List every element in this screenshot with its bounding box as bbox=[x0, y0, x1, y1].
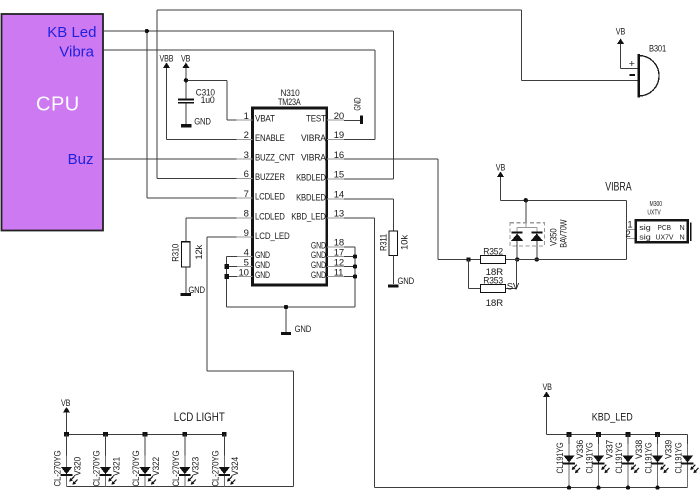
node anode junction V336 bbox=[567, 432, 572, 437]
svg-text:TM23A: TM23A bbox=[278, 97, 301, 107]
ground below R310 bbox=[181, 285, 206, 295]
capacitor C310 1u0 bbox=[178, 88, 215, 125]
power VB arrow (C310) bbox=[181, 54, 190, 91]
diode V350 BAV70W dual bbox=[510, 219, 568, 259]
resistor R310 12k bbox=[171, 242, 204, 267]
node GND junction pin12 bbox=[353, 264, 357, 268]
svg-text:11: 11 bbox=[334, 267, 343, 278]
wire pin16 VIBRA to R352 rail bbox=[344, 159, 481, 259]
pin 2 M300 bbox=[625, 229, 634, 240]
wire GND pins 18,17,12,11 bus bbox=[344, 247, 355, 307]
node anode junction V321 bbox=[103, 432, 108, 437]
pin 2 ENABLE (left) bbox=[236, 130, 284, 144]
svg-text:Vibra: Vibra bbox=[59, 43, 94, 60]
node junction VB / V350 cathode bbox=[524, 198, 528, 202]
pin 1 VBAT (left) bbox=[236, 111, 275, 125]
node GND junction pin10 bbox=[224, 274, 229, 279]
svg-text:SV: SV bbox=[507, 282, 520, 293]
svg-text:VB: VB bbox=[61, 398, 70, 408]
pin 15 KBDLED (right) bbox=[296, 170, 344, 184]
svg-text:GND: GND bbox=[398, 276, 415, 286]
wire VB to M300 pin1 net bbox=[501, 177, 627, 260]
node GND junction pin5 bbox=[224, 264, 229, 269]
svg-text:CL191YG: CL191YG bbox=[585, 442, 595, 473]
power VB arrow (vibra) bbox=[496, 163, 505, 200]
svg-text:19: 19 bbox=[334, 130, 344, 141]
svg-text:1: 1 bbox=[244, 111, 249, 122]
svg-text:BUZZER: BUZZER bbox=[255, 172, 285, 183]
svg-text:VB: VB bbox=[616, 26, 625, 36]
buzzer B301 bbox=[629, 44, 666, 98]
svg-text:V324: V324 bbox=[230, 457, 240, 476]
svg-text:GND: GND bbox=[352, 97, 362, 110]
resistor R353 18R bbox=[481, 275, 506, 307]
svg-text:CL-270YG: CL-270YG bbox=[171, 450, 181, 486]
pin 11 GND (right) bbox=[311, 267, 344, 281]
pin 3 BUZZ_CNT (left) bbox=[236, 150, 295, 164]
svg-text:sig: sig bbox=[639, 233, 651, 242]
svg-text:LCDLED: LCDLED bbox=[255, 211, 285, 222]
resistor R311 10k bbox=[378, 231, 409, 256]
pin 13 KBD_LED (right) bbox=[291, 209, 344, 223]
wire R310 to ground bbox=[185, 267, 187, 293]
svg-text:N: N bbox=[680, 233, 685, 242]
pin 18 GND (right) bbox=[311, 238, 344, 252]
node junction VB / C310 bbox=[184, 78, 188, 82]
svg-text:CL-270YG: CL-270YG bbox=[210, 450, 220, 486]
wire pin13 KBD_LED to keyboard LED rail bbox=[344, 218, 688, 488]
svg-text:VBAT: VBAT bbox=[255, 114, 275, 125]
svg-text:CL191YG: CL191YG bbox=[674, 442, 684, 473]
svg-text:KBD_LED: KBD_LED bbox=[291, 211, 326, 222]
wire VB to KBD anode rail bbox=[547, 397, 688, 488]
svg-text:2: 2 bbox=[625, 229, 630, 240]
pin 9 LCD_LED (left) bbox=[236, 228, 290, 242]
svg-text:BUZZ_CNT: BUZZ_CNT bbox=[255, 153, 295, 164]
svg-text:V321: V321 bbox=[111, 457, 121, 476]
svg-text:V339: V339 bbox=[663, 440, 673, 459]
svg-text:18R: 18R bbox=[486, 298, 504, 308]
svg-text:20: 20 bbox=[334, 111, 344, 122]
wire VB to buzzer + bbox=[621, 44, 638, 69]
svg-text:V320: V320 bbox=[72, 457, 82, 476]
svg-text:V337: V337 bbox=[604, 440, 614, 459]
wire R352 output rail to M300 bbox=[506, 259, 627, 261]
resistor R352 18R bbox=[481, 246, 506, 277]
pin 8 LCDLED (left) bbox=[236, 209, 285, 223]
svg-text:+: + bbox=[629, 58, 635, 70]
pin 4 GND (left) bbox=[236, 247, 270, 261]
svg-text:CL-270YG: CL-270YG bbox=[53, 450, 63, 486]
svg-text:V350: V350 bbox=[549, 228, 559, 246]
pin 5 GND (left) bbox=[236, 257, 270, 271]
svg-text:sig: sig bbox=[639, 223, 651, 232]
node anode junction V320 bbox=[64, 432, 69, 437]
LED V340 CL191YG bbox=[674, 435, 699, 488]
svg-text:GND: GND bbox=[295, 324, 312, 334]
wire pin8 LCDLED to R310 bbox=[186, 218, 237, 242]
pin 17 GND (right) bbox=[311, 247, 344, 261]
svg-text:15: 15 bbox=[334, 170, 344, 181]
svg-text:VBB: VBB bbox=[160, 54, 174, 64]
ground below IC bbox=[281, 324, 312, 334]
svg-text:16: 16 bbox=[334, 150, 344, 161]
svg-text:CL-270YG: CL-270YG bbox=[131, 450, 141, 486]
svg-text:UX7V: UX7V bbox=[656, 233, 674, 242]
node anode junction V339 bbox=[655, 432, 660, 437]
pin 19 VIBRA (right) bbox=[301, 130, 344, 144]
svg-text:10: 10 bbox=[239, 267, 249, 278]
LED V338 CL191YG bbox=[614, 435, 644, 488]
svg-text:ENABLE: ENABLE bbox=[255, 133, 285, 144]
svg-text:R311: R311 bbox=[378, 234, 388, 251]
svg-text:GND: GND bbox=[194, 117, 211, 127]
svg-text:9: 9 bbox=[244, 228, 249, 239]
svg-text:GND: GND bbox=[255, 270, 270, 281]
svg-text:CPU: CPU bbox=[36, 94, 80, 116]
svg-text:1u0: 1u0 bbox=[201, 95, 215, 105]
svg-text:B301: B301 bbox=[649, 44, 666, 54]
LED V320 CL-270YG bbox=[53, 434, 83, 486]
pin 16 VIBRA (right) bbox=[301, 150, 344, 164]
wire pin14 KBDLED to R311 bbox=[344, 199, 393, 231]
pin 10 GND (left) bbox=[236, 267, 270, 281]
node anode junction V322 bbox=[143, 432, 148, 437]
op IC N310 TM23A body bbox=[252, 88, 326, 285]
svg-text:VIBRA: VIBRA bbox=[605, 179, 632, 193]
svg-text:13: 13 bbox=[334, 209, 344, 220]
svg-text:2: 2 bbox=[244, 130, 249, 141]
pin 20 TEST (right) bbox=[306, 111, 344, 125]
power VB arrow (LCD light) bbox=[61, 398, 70, 435]
LED V336 CL191YG bbox=[555, 435, 585, 488]
pin 12 GND (right) bbox=[311, 257, 344, 271]
wire buzzer net: CPU top wire to B301 bbox=[157, 10, 638, 178]
LED V339 CL191YG bbox=[644, 435, 674, 488]
svg-text:VIBRA: VIBRA bbox=[301, 133, 327, 144]
node GND junction below IC bbox=[284, 305, 288, 309]
connector M300 UXTV bbox=[636, 199, 691, 242]
LED V324 CL-270YG bbox=[210, 434, 240, 486]
wire V350 common cathode link bbox=[517, 200, 537, 231]
wire pin9 LCD_LED to LCD LED rail bbox=[67, 237, 294, 486]
svg-text:N: N bbox=[680, 223, 685, 232]
node junction KB Led / LCDLED bbox=[145, 29, 149, 33]
svg-text:TEST: TEST bbox=[306, 114, 326, 125]
svg-text:VB: VB bbox=[543, 382, 552, 392]
svg-text:KBD_LED: KBD_LED bbox=[592, 411, 633, 423]
power VB arrow (buzzer) bbox=[616, 26, 625, 66]
svg-text:GND: GND bbox=[188, 285, 205, 295]
svg-text:CL191YG: CL191YG bbox=[644, 442, 654, 473]
svg-text:3: 3 bbox=[244, 150, 249, 161]
LED V323 CL-270YG bbox=[171, 434, 201, 486]
svg-text:12k: 12k bbox=[194, 244, 204, 259]
LED V322 CL-270YG bbox=[131, 434, 161, 486]
wire VB to LCD anode rail bbox=[67, 412, 225, 434]
svg-text:V338: V338 bbox=[634, 440, 644, 459]
svg-text:V323: V323 bbox=[191, 457, 201, 476]
svg-text:7: 7 bbox=[244, 189, 249, 200]
power VB arrow (KBD led) bbox=[543, 382, 552, 420]
node cathode junction V339 bbox=[655, 485, 659, 489]
wire GND stub below IC bbox=[285, 307, 287, 332]
svg-text:V322: V322 bbox=[151, 457, 161, 476]
CPU block U300 bbox=[2, 14, 104, 231]
wire Vibra net: CPU to pin19 bbox=[104, 50, 376, 139]
wire R353 branch bbox=[469, 260, 517, 289]
svg-text:PCB: PCB bbox=[658, 223, 672, 232]
svg-text:LCD_LED: LCD_LED bbox=[255, 231, 290, 242]
svg-text:CL191YG: CL191YG bbox=[555, 442, 565, 473]
svg-text:CL191YG: CL191YG bbox=[614, 442, 624, 473]
svg-text:KBDLED: KBDLED bbox=[296, 172, 326, 183]
svg-text:KBDLED: KBDLED bbox=[296, 192, 326, 203]
node junction V350 anode left bbox=[515, 257, 519, 261]
svg-text:KB Led: KB Led bbox=[47, 24, 96, 41]
svg-text:LCD LIGHT: LCD LIGHT bbox=[174, 410, 226, 424]
node anode junction V324 bbox=[222, 432, 227, 437]
node junction R352/R353 split bbox=[467, 258, 471, 262]
svg-text:R310: R310 bbox=[171, 244, 181, 262]
wire VBB to pin2 ENABLE bbox=[167, 68, 238, 139]
node cathode junction V336 bbox=[567, 485, 571, 489]
node GND junction pin17 bbox=[353, 254, 357, 258]
svg-text:10k: 10k bbox=[399, 234, 409, 250]
svg-text:LCDLED: LCDLED bbox=[255, 192, 285, 203]
wire Buz net: CPU to pin3 bbox=[104, 158, 238, 160]
wire GND pins 4,5,10 bus bbox=[227, 257, 355, 308]
svg-text:GND: GND bbox=[311, 270, 326, 281]
node anode junction V323 bbox=[183, 432, 188, 437]
svg-text:V336: V336 bbox=[575, 440, 585, 459]
svg-text:14: 14 bbox=[334, 190, 344, 201]
LED V321 CL-270YG bbox=[92, 434, 122, 486]
pin 6 BUZZER (left) bbox=[236, 169, 285, 183]
wire KB Led net: CPU to pin15, junction to pin7 bbox=[104, 31, 394, 198]
node GND junction pin11 bbox=[353, 274, 357, 278]
svg-text:8: 8 bbox=[244, 209, 249, 220]
svg-text:6: 6 bbox=[244, 169, 249, 180]
node junction V350 anode right bbox=[535, 257, 539, 261]
svg-text:VIBRA: VIBRA bbox=[301, 153, 327, 164]
svg-text:CL-270YG: CL-270YG bbox=[92, 450, 102, 486]
pin 1 M300 bbox=[626, 220, 634, 231]
svg-text:R352: R352 bbox=[483, 246, 503, 256]
wire R311 to ground bbox=[392, 256, 394, 285]
pin 7 LCDLED (left) bbox=[236, 189, 285, 203]
ground below R311 bbox=[388, 276, 414, 286]
LED V337 CL191YG bbox=[585, 435, 615, 488]
svg-text:VB: VB bbox=[496, 163, 505, 173]
svg-text:Buz: Buz bbox=[68, 151, 94, 168]
node anode junction V337 bbox=[596, 432, 601, 437]
wire VB to C310 and pin1 VBAT bbox=[186, 68, 237, 120]
svg-text:UXTV: UXTV bbox=[647, 208, 660, 217]
svg-text:VB: VB bbox=[181, 54, 190, 64]
node cathode junction V337 bbox=[596, 485, 600, 489]
node anode junction V338 bbox=[626, 432, 631, 437]
node cathode junction V338 bbox=[626, 485, 630, 489]
svg-text:R353: R353 bbox=[483, 275, 503, 285]
svg-text:BAV70W: BAV70W bbox=[558, 219, 568, 248]
ground below C310 bbox=[181, 117, 211, 127]
power VBB arrow bbox=[160, 54, 174, 91]
wire pin20 TEST to GND stop bbox=[344, 119, 360, 121]
ground terminator at pin20 bbox=[352, 97, 362, 124]
pin 14 KBDLED (right) bbox=[296, 190, 344, 204]
